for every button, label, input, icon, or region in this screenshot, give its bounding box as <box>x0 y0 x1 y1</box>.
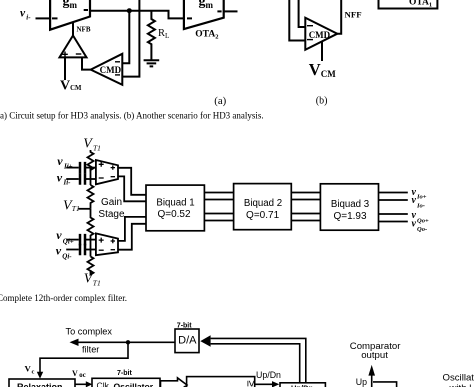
arrow updn head <box>272 381 279 387</box>
svg-text:V: V <box>25 363 32 373</box>
svg-text:Biquad 2: Biquad 2 <box>244 198 282 209</box>
wire bus biquad1 to biquad2 <box>204 193 233 221</box>
wire A1 out+ to biquad1 <box>118 168 146 195</box>
wire C3 to amp <box>85 239 96 241</box>
op-amp OTA1 gm trapezoid <box>50 0 90 30</box>
CMD b bottom minus tick <box>307 39 313 41</box>
amplifier A1 trapezoid <box>96 160 118 184</box>
block D/A <box>175 329 199 353</box>
wire VT1 mid stub <box>78 208 90 210</box>
arrow Vc down <box>37 372 43 379</box>
svg-text:output: output <box>361 350 388 361</box>
node junction dot Vc <box>126 340 130 344</box>
svg-text:Io-: Io- <box>416 203 425 210</box>
svg-text:Up/Dn: Up/Dn <box>291 383 313 387</box>
wire CMD output to NFB <box>82 57 91 69</box>
svg-text:T1: T1 <box>93 144 101 153</box>
wire OTA2 output <box>224 10 238 12</box>
svg-text:i-: i- <box>26 14 31 22</box>
svg-text:Qi-: Qi- <box>62 253 72 261</box>
ground <box>144 60 160 66</box>
wire C2 to amp <box>85 178 96 180</box>
block Biquad 1 <box>146 185 204 231</box>
wire A1 out- to biquad1 <box>118 176 146 201</box>
NFB minus tick <box>76 53 82 55</box>
wire CMD b output NFF <box>337 0 341 34</box>
node junction dot <box>127 8 132 13</box>
svg-text:with l: with l <box>449 383 472 387</box>
block Biquad 3 <box>320 184 378 230</box>
block Relaxation Oscillator <box>9 379 75 387</box>
svg-text:oc: oc <box>79 372 85 379</box>
op-amp CMD triangle (a) <box>91 54 123 85</box>
wire OTA1 output main <box>90 11 184 19</box>
svg-text:NFF: NFF <box>345 10 362 20</box>
A1 minus out tick <box>111 176 115 178</box>
wire CMD top input <box>122 11 129 64</box>
arrow block bus hollow <box>161 378 188 387</box>
svg-text:Oscillator: Oscillator <box>114 382 154 387</box>
svg-text:Io+: Io+ <box>416 194 427 201</box>
wire bus biquad2 to biquad3 <box>291 193 320 221</box>
svg-text:Qo-: Qo- <box>417 226 427 233</box>
svg-text:Q=0.71: Q=0.71 <box>246 210 280 221</box>
wire VCM stem (b) <box>321 42 323 62</box>
svg-text:filter: filter <box>82 345 99 355</box>
wire C1 to amp <box>85 167 96 169</box>
block UpDn counter <box>280 383 325 387</box>
svg-text:Q=0.52: Q=0.52 <box>157 209 191 220</box>
svg-text:OTA2: OTA2 <box>195 30 218 41</box>
wire vIi+ input <box>66 167 79 169</box>
svg-text:Up/Dn: Up/Dn <box>256 370 281 380</box>
wire fig b vertical A <box>289 0 305 41</box>
svg-text:Oscillat: Oscillat <box>443 372 474 383</box>
svg-text:v: v <box>412 195 417 206</box>
svg-text:Biquad 1: Biquad 1 <box>156 197 194 208</box>
svg-text:To complex: To complex <box>66 327 113 337</box>
svg-text:(a) Circuit setup for HD3 anal: (a) Circuit setup for HD3 analysis. (b) … <box>0 111 264 121</box>
svg-text:v: v <box>56 228 62 242</box>
CMD b top minus tick <box>307 25 313 27</box>
NFB plus tick <box>62 52 68 58</box>
CMD bottom input minus tick <box>115 74 120 76</box>
svg-text:CMD: CMD <box>100 65 122 75</box>
op-amp OTA box (b) <box>379 0 438 9</box>
block Clk Oscillator <box>92 378 160 387</box>
wire bus feedback top <box>211 338 306 382</box>
svg-text:Up: Up <box>356 377 367 387</box>
wire bus feedback bottom <box>211 344 300 383</box>
svg-text:v: v <box>20 8 26 20</box>
svg-text:V: V <box>72 369 78 378</box>
wire to complex filter <box>78 341 175 343</box>
svg-text:Qo+: Qo+ <box>417 218 429 225</box>
arrow bus into DA <box>200 335 210 346</box>
wire bias column lower <box>90 240 92 257</box>
wire vQi+ input <box>66 239 79 241</box>
wire vIi- input <box>66 178 79 180</box>
A1 plus out tick <box>111 165 115 169</box>
buffer NFB triangle <box>60 36 87 58</box>
svg-text:(a): (a) <box>214 95 226 107</box>
wire NFB stem <box>72 22 74 35</box>
A1 plus in tick <box>99 162 104 167</box>
svg-text:≥: ≥ <box>244 380 256 386</box>
arrow to complex filter <box>70 339 79 346</box>
svg-text:Ii+: Ii+ <box>63 162 73 170</box>
arrow comparator output up <box>368 365 375 376</box>
capacitor C2 <box>80 173 85 185</box>
amplifier A2 trapezoid <box>96 233 118 255</box>
OTA2 input minus tick <box>187 17 192 19</box>
A1 minus in tick <box>99 177 104 179</box>
resistor bias R1 <box>88 150 94 170</box>
resistor RL <box>148 11 155 60</box>
svg-text:OTA1: OTA1 <box>409 0 432 9</box>
svg-text:Q=1.93: Q=1.93 <box>333 211 367 222</box>
wire C4 to amp <box>85 249 96 251</box>
wire comparator to updn <box>255 383 273 385</box>
wire input vi- <box>36 17 51 19</box>
OTA2 output minus tick <box>217 10 221 12</box>
OTA1 input minus tick <box>52 17 58 19</box>
svg-text:T1: T1 <box>93 279 101 288</box>
wire bias column upper <box>90 168 92 185</box>
wire comparator output <box>371 375 373 387</box>
svg-text:Clk: Clk <box>97 381 110 387</box>
svg-text:(b): (b) <box>316 96 328 107</box>
svg-text:V: V <box>83 137 93 152</box>
wire CMD bottom input <box>122 0 139 77</box>
capacitor C3 <box>80 234 85 246</box>
svg-text:Relaxation: Relaxation <box>17 382 63 387</box>
wire vQi- input <box>66 249 79 251</box>
op-amp OTA2 gm trapezoid <box>184 0 224 29</box>
wire up corner <box>373 382 397 387</box>
wire VCM stem <box>64 57 66 80</box>
capacitor C1 <box>80 162 85 174</box>
svg-text:c: c <box>32 369 35 376</box>
OTA1 output minus tick <box>84 9 88 11</box>
svg-text:gm: gm <box>199 0 214 10</box>
svg-text:NFB: NFB <box>77 26 91 34</box>
svg-text:v: v <box>412 218 417 229</box>
wire Vc path <box>40 342 128 372</box>
arrow Voc head <box>86 381 93 387</box>
svg-text:v: v <box>57 154 63 168</box>
wire A2 out+ to biquad1 <box>118 217 146 241</box>
A2 minus in tick <box>99 249 104 251</box>
capacitor C4 <box>80 244 85 256</box>
svg-text:7-bit: 7-bit <box>117 370 132 377</box>
wire output bus <box>379 193 408 222</box>
svg-text:v: v <box>57 170 63 184</box>
wire A2 out- to biquad1 <box>118 224 146 250</box>
CMD top input minus tick <box>115 61 120 63</box>
svg-text:gm: gm <box>63 0 78 10</box>
svg-text:Qi+: Qi+ <box>63 238 74 246</box>
svg-text:Stage: Stage <box>98 209 125 220</box>
svg-text:CMD: CMD <box>309 30 331 40</box>
svg-text:Gain: Gain <box>101 197 122 208</box>
svg-text:Biquad 3: Biquad 3 <box>331 199 369 210</box>
A2 minus out tick <box>111 249 115 251</box>
resistor bias R4 <box>88 257 94 275</box>
resistor bias R2 <box>88 185 94 209</box>
A2 plus in tick <box>99 238 104 243</box>
svg-text:D/A: D/A <box>178 334 197 346</box>
wire Voc arrow <box>75 383 87 385</box>
wire fig b vertical B <box>299 0 306 27</box>
resistor bias R3 <box>88 209 94 240</box>
op-amp CMD triangle (b) <box>305 18 337 50</box>
block comparator <box>187 377 255 387</box>
A2 plus out tick <box>111 239 115 243</box>
svg-text:v: v <box>56 244 62 258</box>
block Biquad 2 <box>234 184 292 230</box>
svg-text:Complete 12th-order complex fi: Complete 12th-order complex filter. <box>0 293 127 303</box>
